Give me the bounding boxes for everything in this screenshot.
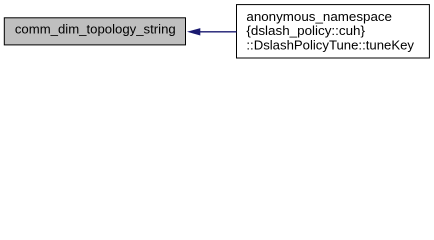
arrowhead <box>187 28 200 35</box>
node comm_dim_topology_string <box>4 18 185 45</box>
node DslashPolicyTune::tuneKey <box>237 5 430 58</box>
svg-text:anonymous_namespace: anonymous_namespace <box>246 9 392 24</box>
svg-text:::DslashPolicyTune::tuneKey: ::DslashPolicyTune::tuneKey <box>246 38 414 53</box>
svg-text:comm_dim_topology_string: comm_dim_topology_string <box>15 22 176 37</box>
edge arrow from tuneKey to comm_dim_topology_string <box>187 28 237 35</box>
wire <box>200 31 237 33</box>
svg-text:{dslash_policy::cuh}: {dslash_policy::cuh} <box>246 23 365 38</box>
